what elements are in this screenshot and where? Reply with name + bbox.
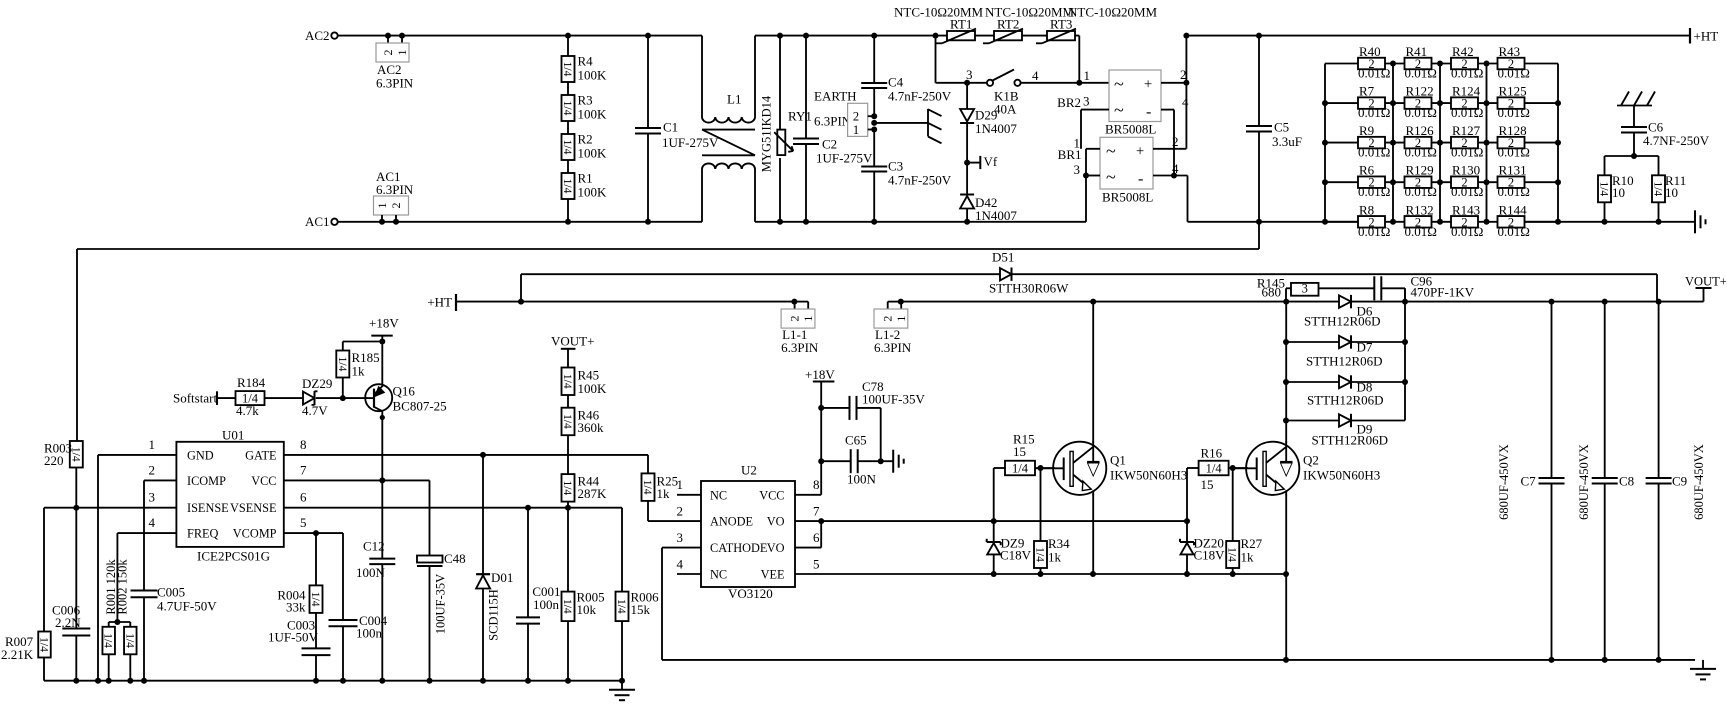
svg-text:1N4007: 1N4007 bbox=[975, 121, 1017, 136]
svg-text:R9: R9 bbox=[1359, 123, 1374, 138]
svg-text:100N: 100N bbox=[356, 565, 386, 580]
svg-text:R130: R130 bbox=[1452, 163, 1480, 178]
svg-text:C18V: C18V bbox=[1000, 548, 1032, 563]
svg-text:0.01Ω: 0.01Ω bbox=[1405, 184, 1437, 199]
svg-text:1/4: 1/4 bbox=[1652, 181, 1664, 196]
svg-text:Softstart: Softstart bbox=[173, 391, 217, 406]
svg-text:R6: R6 bbox=[1359, 163, 1375, 178]
svg-text:IKW50N60H3: IKW50N60H3 bbox=[1110, 468, 1187, 483]
svg-text:U2: U2 bbox=[741, 463, 757, 478]
svg-text:R132: R132 bbox=[1406, 202, 1434, 217]
svg-text:3: 3 bbox=[677, 530, 684, 545]
svg-text:1: 1 bbox=[1084, 68, 1091, 83]
svg-text:1/4: 1/4 bbox=[561, 599, 573, 614]
svg-text:1UF-275V: 1UF-275V bbox=[662, 135, 719, 150]
svg-text:FREQ: FREQ bbox=[187, 527, 219, 541]
svg-text:6: 6 bbox=[813, 530, 820, 545]
svg-text:NC: NC bbox=[710, 568, 727, 582]
svg-text:680UF-450VX: 680UF-450VX bbox=[1497, 444, 1511, 520]
svg-text:C2: C2 bbox=[822, 137, 837, 152]
svg-text:7: 7 bbox=[813, 504, 820, 519]
svg-text:4.7nF-250V: 4.7nF-250V bbox=[888, 173, 952, 188]
svg-text:1/4: 1/4 bbox=[641, 480, 653, 495]
svg-text:R43: R43 bbox=[1499, 44, 1521, 59]
svg-text:1/4: 1/4 bbox=[561, 414, 573, 429]
svg-text:+18V: +18V bbox=[369, 316, 399, 331]
svg-text:C8: C8 bbox=[1619, 474, 1634, 489]
svg-text:1/4: 1/4 bbox=[1598, 181, 1610, 196]
svg-text:R41: R41 bbox=[1406, 44, 1428, 59]
svg-text:R8: R8 bbox=[1359, 202, 1374, 217]
svg-text:0.01Ω: 0.01Ω bbox=[1358, 66, 1390, 81]
svg-text:100n: 100n bbox=[356, 626, 383, 641]
svg-text:ISENSE: ISENSE bbox=[187, 501, 229, 515]
svg-text:1/4: 1/4 bbox=[561, 62, 573, 77]
svg-text:6.3PIN: 6.3PIN bbox=[874, 340, 912, 355]
svg-text:100N: 100N bbox=[847, 472, 877, 487]
svg-text:VEE: VEE bbox=[761, 568, 785, 582]
svg-text:2: 2 bbox=[853, 110, 859, 124]
svg-text:R131: R131 bbox=[1499, 163, 1527, 178]
svg-text:3: 3 bbox=[1302, 282, 1308, 296]
svg-text:C9: C9 bbox=[1672, 474, 1687, 489]
svg-text:VO: VO bbox=[767, 541, 785, 555]
svg-text:R40: R40 bbox=[1359, 44, 1381, 59]
svg-text:+HT: +HT bbox=[427, 295, 452, 310]
svg-text:VO: VO bbox=[767, 515, 785, 529]
svg-text:NTC-10Ω20MM: NTC-10Ω20MM bbox=[1068, 5, 1158, 20]
svg-text:R127: R127 bbox=[1452, 123, 1481, 138]
svg-text:2.21K: 2.21K bbox=[1, 647, 34, 662]
svg-text:STTH12R06D: STTH12R06D bbox=[1306, 354, 1383, 369]
svg-text:33k: 33k bbox=[286, 600, 306, 615]
svg-text:0.01Ω: 0.01Ω bbox=[1498, 184, 1530, 199]
svg-text:1/4: 1/4 bbox=[1206, 462, 1223, 476]
svg-text:STTH12R06D: STTH12R06D bbox=[1312, 433, 1389, 448]
svg-text:C18V: C18V bbox=[1194, 548, 1226, 563]
svg-text:1/4: 1/4 bbox=[561, 140, 573, 155]
svg-text:1: 1 bbox=[677, 477, 684, 492]
svg-text:287K: 287K bbox=[578, 486, 608, 501]
svg-text:7: 7 bbox=[300, 462, 307, 477]
svg-text:0.01Ω: 0.01Ω bbox=[1405, 224, 1437, 239]
svg-text:4: 4 bbox=[677, 557, 684, 572]
svg-text:AC2: AC2 bbox=[305, 28, 330, 43]
svg-text:40A: 40A bbox=[994, 102, 1017, 117]
svg-text:1/4: 1/4 bbox=[309, 592, 321, 607]
svg-text:2: 2 bbox=[881, 316, 895, 322]
svg-text:100K: 100K bbox=[578, 146, 608, 161]
svg-text:C65: C65 bbox=[845, 433, 867, 448]
svg-text:-: - bbox=[1146, 104, 1151, 121]
svg-text:1N4007: 1N4007 bbox=[975, 208, 1017, 223]
svg-text:~: ~ bbox=[1106, 167, 1116, 187]
svg-text:0.01Ω: 0.01Ω bbox=[1358, 145, 1390, 160]
svg-text:1: 1 bbox=[853, 123, 859, 137]
svg-text:1k: 1k bbox=[1241, 550, 1255, 565]
svg-text:100UF-35V: 100UF-35V bbox=[862, 392, 925, 407]
svg-text:STTH12R06D: STTH12R06D bbox=[1304, 314, 1381, 329]
svg-text:1: 1 bbox=[801, 316, 815, 322]
svg-text:4.7k: 4.7k bbox=[236, 403, 259, 418]
svg-text:1: 1 bbox=[149, 437, 156, 452]
svg-text:4.7NF-250V: 4.7NF-250V bbox=[1643, 133, 1710, 148]
svg-text:VOUT+: VOUT+ bbox=[551, 334, 594, 349]
svg-text:3: 3 bbox=[1083, 94, 1090, 109]
svg-text:DZ29: DZ29 bbox=[302, 376, 332, 391]
svg-text:BR2: BR2 bbox=[1057, 95, 1081, 110]
svg-text:100K: 100K bbox=[578, 107, 608, 122]
svg-text:1k: 1k bbox=[1048, 550, 1062, 565]
svg-text:0.01Ω: 0.01Ω bbox=[1498, 145, 1530, 160]
svg-text:~: ~ bbox=[1106, 141, 1116, 161]
svg-text:5: 5 bbox=[300, 515, 307, 530]
svg-text:SCD115H: SCD115H bbox=[487, 589, 501, 641]
svg-text:2: 2 bbox=[149, 462, 156, 477]
svg-text:C5: C5 bbox=[1274, 120, 1289, 135]
svg-text:0.01Ω: 0.01Ω bbox=[1498, 105, 1530, 120]
svg-text:R144: R144 bbox=[1499, 202, 1528, 217]
svg-text:Vf: Vf bbox=[984, 154, 998, 169]
svg-text:R128: R128 bbox=[1499, 123, 1527, 138]
svg-text:VCC: VCC bbox=[759, 488, 784, 502]
svg-text:680: 680 bbox=[1262, 285, 1282, 300]
svg-text:CATHODE: CATHODE bbox=[710, 541, 767, 555]
svg-text:VCOMP: VCOMP bbox=[233, 527, 277, 541]
svg-text:1/4: 1/4 bbox=[38, 637, 50, 652]
svg-text:2: 2 bbox=[1180, 67, 1187, 82]
svg-text:R1: R1 bbox=[578, 171, 593, 186]
svg-text:0.01Ω: 0.01Ω bbox=[1358, 184, 1390, 199]
svg-text:5: 5 bbox=[813, 557, 820, 572]
svg-text:2: 2 bbox=[389, 203, 403, 209]
svg-text:ICE2PCS01G: ICE2PCS01G bbox=[197, 549, 270, 564]
svg-text:R184: R184 bbox=[237, 375, 266, 390]
svg-text:10k: 10k bbox=[577, 602, 597, 617]
svg-text:RY1: RY1 bbox=[788, 109, 812, 124]
svg-text:C48: C48 bbox=[444, 551, 466, 566]
svg-text:1: 1 bbox=[894, 316, 908, 322]
svg-text:1/4: 1/4 bbox=[561, 480, 573, 495]
svg-text:NTC-10Ω20MM: NTC-10Ω20MM bbox=[894, 5, 984, 20]
svg-text:+18V: +18V bbox=[805, 367, 835, 382]
svg-text:+: + bbox=[1136, 144, 1144, 160]
svg-text:0.01Ω: 0.01Ω bbox=[1451, 184, 1483, 199]
svg-text:2: 2 bbox=[788, 316, 802, 322]
svg-text:680UF-450VX: 680UF-450VX bbox=[1692, 444, 1706, 520]
svg-text:C4: C4 bbox=[888, 75, 904, 90]
svg-text:8: 8 bbox=[300, 437, 307, 452]
svg-text:100K: 100K bbox=[578, 68, 608, 83]
svg-text:+: + bbox=[1144, 77, 1152, 93]
svg-text:R143: R143 bbox=[1452, 202, 1480, 217]
svg-text:C12: C12 bbox=[363, 539, 385, 554]
svg-text:15: 15 bbox=[1013, 444, 1026, 459]
svg-text:EARTH: EARTH bbox=[814, 89, 857, 104]
svg-text:~: ~ bbox=[1114, 100, 1124, 120]
svg-text:R126: R126 bbox=[1406, 123, 1435, 138]
svg-text:VSENSE: VSENSE bbox=[230, 501, 276, 515]
svg-text:2.2N: 2.2N bbox=[55, 615, 81, 630]
svg-text:3.3uF: 3.3uF bbox=[1272, 134, 1302, 149]
svg-text:R002 150k: R002 150k bbox=[116, 559, 130, 615]
svg-text:0.01Ω: 0.01Ω bbox=[1405, 66, 1437, 81]
svg-text:VCC: VCC bbox=[251, 474, 276, 488]
svg-text:2: 2 bbox=[677, 504, 684, 519]
svg-text:10: 10 bbox=[1665, 185, 1678, 200]
svg-text:VO3120: VO3120 bbox=[728, 586, 773, 601]
svg-text:R3: R3 bbox=[578, 93, 593, 108]
svg-text:Q16: Q16 bbox=[393, 384, 416, 399]
svg-text:10: 10 bbox=[1612, 185, 1625, 200]
svg-text:680UF-450VX: 680UF-450VX bbox=[1577, 444, 1591, 520]
svg-text:0.01Ω: 0.01Ω bbox=[1358, 224, 1390, 239]
svg-text:C005: C005 bbox=[157, 585, 185, 600]
svg-text:100UF-35V: 100UF-35V bbox=[434, 574, 448, 634]
svg-text:1/4: 1/4 bbox=[561, 374, 573, 389]
svg-text:0.01Ω: 0.01Ω bbox=[1451, 224, 1483, 239]
svg-text:6: 6 bbox=[300, 490, 307, 505]
svg-text:1/4: 1/4 bbox=[1012, 462, 1029, 476]
svg-text:D51: D51 bbox=[992, 250, 1014, 265]
svg-text:4: 4 bbox=[1172, 161, 1179, 176]
svg-text:4: 4 bbox=[1182, 95, 1189, 110]
svg-text:100K: 100K bbox=[578, 185, 608, 200]
svg-text:1/4: 1/4 bbox=[336, 357, 348, 372]
svg-text:C1: C1 bbox=[663, 120, 678, 135]
svg-text:0.01Ω: 0.01Ω bbox=[1451, 66, 1483, 81]
svg-text:L1: L1 bbox=[727, 92, 741, 107]
svg-text:4: 4 bbox=[149, 515, 156, 530]
svg-text:2: 2 bbox=[381, 50, 395, 56]
svg-text:R2: R2 bbox=[578, 132, 593, 147]
svg-text:C3: C3 bbox=[888, 159, 903, 174]
svg-text:STTH12R06D: STTH12R06D bbox=[1307, 393, 1384, 408]
svg-text:BR1: BR1 bbox=[1058, 147, 1082, 162]
svg-text:6.3PIN: 6.3PIN bbox=[376, 76, 414, 91]
svg-text:D01: D01 bbox=[491, 570, 513, 585]
svg-text:1k: 1k bbox=[352, 364, 366, 379]
svg-text:1/4: 1/4 bbox=[1034, 547, 1046, 562]
svg-text:3: 3 bbox=[149, 490, 156, 505]
svg-text:NTC-10Ω20MM: NTC-10Ω20MM bbox=[985, 5, 1075, 20]
svg-text:+HT: +HT bbox=[1694, 29, 1719, 44]
svg-text:360k: 360k bbox=[578, 420, 605, 435]
svg-text:Q2: Q2 bbox=[1303, 453, 1319, 468]
svg-text:MYG51IKD14: MYG51IKD14 bbox=[760, 95, 774, 172]
svg-text:R42: R42 bbox=[1452, 44, 1474, 59]
svg-text:1/4: 1/4 bbox=[615, 599, 627, 614]
svg-text:R129: R129 bbox=[1406, 163, 1434, 178]
svg-text:1/4: 1/4 bbox=[123, 633, 135, 648]
svg-text:1UF-50V: 1UF-50V bbox=[268, 630, 318, 645]
svg-text:BR5008L: BR5008L bbox=[1105, 122, 1156, 137]
svg-text:C7: C7 bbox=[1521, 474, 1537, 489]
svg-text:R124: R124 bbox=[1452, 84, 1481, 99]
svg-text:U01: U01 bbox=[222, 428, 244, 443]
svg-text:1/4: 1/4 bbox=[561, 101, 573, 116]
svg-text:6.3PIN: 6.3PIN bbox=[781, 340, 819, 355]
svg-text:R122: R122 bbox=[1406, 84, 1434, 99]
svg-text:3: 3 bbox=[966, 67, 973, 82]
svg-text:NC: NC bbox=[710, 488, 727, 502]
svg-text:1/4: 1/4 bbox=[102, 633, 114, 648]
svg-text:4.7V: 4.7V bbox=[302, 403, 328, 418]
svg-text:0.01Ω: 0.01Ω bbox=[1498, 66, 1530, 81]
svg-text:0.01Ω: 0.01Ω bbox=[1358, 105, 1390, 120]
svg-text:15: 15 bbox=[1201, 477, 1214, 492]
svg-text:4: 4 bbox=[1032, 68, 1039, 83]
svg-text:470PF-1KV: 470PF-1KV bbox=[1411, 285, 1475, 300]
svg-text:GND: GND bbox=[187, 448, 214, 462]
svg-text:4.7UF-50V: 4.7UF-50V bbox=[157, 599, 217, 614]
svg-text:Q1: Q1 bbox=[1110, 453, 1126, 468]
svg-text:1/4: 1/4 bbox=[561, 179, 573, 194]
svg-text:2: 2 bbox=[1172, 134, 1179, 149]
svg-text:100n: 100n bbox=[533, 597, 560, 612]
svg-text:6.3PIN: 6.3PIN bbox=[814, 114, 852, 129]
svg-text:R4: R4 bbox=[578, 54, 594, 69]
svg-text:BR5008L: BR5008L bbox=[1102, 190, 1153, 205]
svg-text:0.01Ω: 0.01Ω bbox=[1498, 224, 1530, 239]
svg-text:VOUT+: VOUT+ bbox=[1685, 275, 1727, 289]
svg-text:1: 1 bbox=[375, 203, 389, 209]
svg-text:0.01Ω: 0.01Ω bbox=[1405, 145, 1437, 160]
svg-text:1: 1 bbox=[395, 50, 409, 56]
svg-text:ICOMP: ICOMP bbox=[187, 474, 226, 488]
svg-text:15k: 15k bbox=[631, 602, 651, 617]
svg-text:0.01Ω: 0.01Ω bbox=[1405, 105, 1437, 120]
svg-text:BC807-25: BC807-25 bbox=[393, 399, 447, 414]
svg-text:6.3PIN: 6.3PIN bbox=[376, 182, 414, 197]
svg-text:1UF-275V: 1UF-275V bbox=[816, 151, 873, 166]
svg-text:0.01Ω: 0.01Ω bbox=[1451, 145, 1483, 160]
svg-text:4.7nF-250V: 4.7nF-250V bbox=[888, 89, 952, 104]
svg-text:100K: 100K bbox=[578, 381, 608, 396]
svg-text:ANODE: ANODE bbox=[710, 515, 753, 529]
svg-text:8: 8 bbox=[813, 477, 820, 492]
svg-text:GATE: GATE bbox=[245, 448, 276, 462]
svg-text:R16: R16 bbox=[1201, 446, 1223, 461]
svg-text:220: 220 bbox=[44, 453, 64, 468]
svg-text:IKW50N60H3: IKW50N60H3 bbox=[1303, 468, 1380, 483]
svg-text:0.01Ω: 0.01Ω bbox=[1451, 105, 1483, 120]
svg-text:STTH30R06W: STTH30R06W bbox=[989, 281, 1069, 296]
svg-text:-: - bbox=[1138, 171, 1143, 188]
svg-text:R125: R125 bbox=[1499, 84, 1527, 99]
svg-text:1k: 1k bbox=[657, 486, 671, 501]
svg-text:AC1: AC1 bbox=[305, 214, 330, 229]
svg-text:R7: R7 bbox=[1359, 84, 1375, 99]
svg-text:D7: D7 bbox=[1357, 340, 1373, 355]
svg-text:~: ~ bbox=[1114, 74, 1124, 94]
svg-text:3: 3 bbox=[1074, 162, 1081, 177]
svg-text:1/4: 1/4 bbox=[1226, 547, 1238, 562]
